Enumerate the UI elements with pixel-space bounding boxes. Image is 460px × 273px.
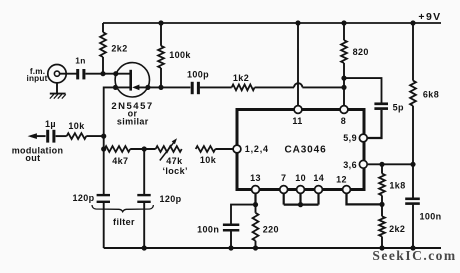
- node gate/2k2 junction: [100, 71, 105, 76]
- label f.m. input: [26, 67, 47, 83]
- wire 100p to 1k2: [200, 86, 232, 88]
- node pin10/bus junction: [298, 202, 303, 207]
- label pin 13: [250, 173, 261, 183]
- resistor R 100k (drain load): [158, 23, 164, 87]
- node pin13/100n/220 junction: [253, 202, 258, 207]
- pin 13 terminal: [252, 186, 260, 194]
- label pin 10: [295, 173, 306, 183]
- resistor R 10k (loop): [196, 146, 216, 152]
- resistor R 1k8: [379, 164, 385, 204]
- wire pin 12 to 1k8/2k2 junction: [347, 193, 383, 204]
- op-amp U1 CA3046 transistor array box: [237, 110, 364, 190]
- label 120p left value: [72, 193, 94, 203]
- wire 4k7 to 47k: [130, 148, 155, 150]
- svg-text:4k7: 4k7: [112, 156, 128, 166]
- node 1k2/820 junction: [341, 85, 346, 90]
- brace filter underbrace: [92, 205, 153, 212]
- svg-text:2k2: 2k2: [111, 44, 127, 54]
- pin 8 terminal: [340, 106, 348, 114]
- node source-line/4k7 junction: [101, 146, 106, 151]
- resistor R 6k8: [410, 23, 416, 164]
- label pin 8: [341, 116, 346, 126]
- node top-rail/100k junction: [158, 20, 163, 25]
- svg-text:12: 12: [336, 174, 347, 184]
- svg-text:5,9: 5,9: [343, 133, 357, 143]
- label SeekIC.com watermark: [372, 248, 456, 263]
- label 2k2 emitter value: [389, 224, 405, 234]
- pin 10 terminal: [297, 186, 305, 194]
- label 100k value: [169, 50, 191, 60]
- wire drain lead to 100k and 100p: [139, 86, 190, 88]
- label pin 1,2,4: [245, 144, 269, 154]
- node 3,6/6k8/100n junction: [410, 162, 415, 167]
- node 4k7/120p junction: [142, 146, 147, 151]
- resistor R 10k (output): [67, 133, 87, 139]
- svg-text:10: 10: [295, 173, 306, 183]
- label pin 12: [336, 174, 347, 184]
- svg-text:input: input: [26, 74, 47, 83]
- label pin 3,6: [343, 160, 357, 170]
- wire 120p right branch: [143, 149, 145, 248]
- svg-text:3,6: 3,6: [343, 160, 357, 170]
- wire pin 13 lead: [254, 193, 256, 204]
- resistor R 47k lock potentiometer: [156, 146, 182, 152]
- pin 3,6 terminal: [359, 160, 367, 168]
- transistor Q1 2N5457 envelope: [115, 63, 149, 97]
- svg-text:10k: 10k: [200, 155, 217, 165]
- svg-text:100p: 100p: [187, 70, 209, 80]
- node top-rail/6k8 junction: [410, 20, 415, 25]
- capacitor C 5p: [374, 104, 388, 109]
- svg-text:100k: 100k: [169, 50, 191, 60]
- svg-text:100n: 100n: [197, 224, 219, 234]
- wire +9V top supply rail: [103, 22, 441, 24]
- label 47k value: [166, 156, 183, 166]
- label 100n right value: [419, 212, 441, 222]
- label 4k7 value: [112, 156, 128, 166]
- svg-text:filter: filter: [113, 217, 135, 227]
- label 120p right value: [159, 194, 181, 204]
- capacitor C 100n left: [223, 225, 239, 231]
- label 2N5457 or similar: [111, 101, 153, 126]
- pin 14 terminal: [315, 186, 323, 194]
- wire pins 7,10,14 common bus: [284, 193, 319, 204]
- svg-text:+9V: +9V: [418, 11, 441, 23]
- svg-text:1k8: 1k8: [389, 180, 405, 190]
- svg-text:100n: 100n: [419, 212, 441, 222]
- node top-rail/820 junction: [341, 20, 346, 25]
- label 1n value: [75, 56, 86, 66]
- wire junction to 100n left: [231, 205, 256, 224]
- label pin 5,9: [343, 133, 357, 143]
- wire 1n capacitor to gate: [86, 73, 131, 75]
- label 5p value: [393, 102, 404, 112]
- node 220/rail junction: [253, 245, 258, 250]
- svg-text:5p: 5p: [393, 102, 404, 112]
- svg-text:7: 7: [281, 173, 286, 183]
- svg-text:out: out: [25, 153, 40, 163]
- svg-text:‘lock’: ‘lock’: [162, 166, 187, 176]
- resistor R 4k7: [105, 146, 131, 152]
- resistor R 820: [341, 23, 347, 106]
- connector J1 f.m. input socket: [48, 65, 66, 83]
- node 820/5p junction: [341, 76, 346, 81]
- label 6k8 value: [423, 90, 439, 100]
- node 2k2/rail junction: [379, 245, 384, 250]
- svg-text:47k: 47k: [166, 156, 183, 166]
- svg-text:120p: 120p: [72, 193, 94, 203]
- label filter: [113, 217, 135, 227]
- label +9V: [418, 11, 441, 23]
- resistor R 2k2 (gate bias): [100, 23, 106, 74]
- svg-text:13: 13: [250, 173, 261, 183]
- node 120p-right/rail junction: [142, 245, 147, 250]
- wire ground bottom rail: [104, 247, 441, 249]
- svg-text:10k: 10k: [68, 121, 85, 131]
- pin 12 terminal: [343, 186, 351, 194]
- svg-text:1n: 1n: [75, 56, 86, 66]
- label pin 14: [313, 173, 324, 183]
- svg-text:CA3046: CA3046: [284, 145, 326, 156]
- svg-text:1µ: 1µ: [45, 119, 56, 129]
- svg-text:SeekIC.com: SeekIC.com: [372, 248, 456, 263]
- svg-text:120p: 120p: [159, 194, 181, 204]
- capacitor C 1µ: [48, 130, 54, 143]
- label 820 value: [353, 47, 369, 57]
- label 220 value: [263, 224, 279, 234]
- pin 1,2,4 terminal: [233, 145, 241, 153]
- pin 7 terminal: [280, 186, 288, 194]
- wire 10k to pin 1,2,4: [215, 148, 233, 150]
- svg-text:2k2: 2k2: [389, 224, 405, 234]
- capacitor C 100n right: [405, 199, 420, 204]
- node 3,6/1k8 junction: [379, 162, 384, 167]
- node 1k8/2k2 junction: [379, 202, 384, 207]
- pin 5,9 terminal: [359, 134, 367, 142]
- label 1µ value: [45, 119, 56, 129]
- arrow 47k wiper: [160, 138, 177, 160]
- label 2k2 value: [111, 44, 127, 54]
- wire 6k8 node to 100n right: [412, 164, 414, 198]
- node drain line crosses envelope: [145, 85, 150, 90]
- transistor Q1 channel bar: [129, 70, 132, 91]
- wire 1µ to 10k: [56, 135, 67, 137]
- label 1k8 value: [389, 180, 405, 190]
- label 100p value: [187, 70, 209, 80]
- pin 11 terminal: [294, 106, 302, 114]
- node gate line crosses envelope: [113, 71, 118, 76]
- wire 820 node to 5p top: [344, 78, 382, 103]
- node drain/100k junction: [158, 85, 163, 90]
- wire 100n right to ground rail: [412, 205, 414, 248]
- node source line crosses envelope: [113, 85, 118, 90]
- label CA3046: [284, 145, 326, 156]
- resistor R 2k2 (emitter): [379, 204, 385, 248]
- wire input socket to 1n capacitor: [60, 73, 77, 75]
- label 1k2 value: [233, 73, 249, 83]
- label 10k loop value: [200, 155, 217, 165]
- svg-text:220: 220: [263, 224, 279, 234]
- node 100n-left/rail junction: [228, 245, 233, 250]
- label pin 11: [292, 116, 302, 126]
- transistor Q1 arrow on drain lead: [132, 85, 139, 91]
- resistor R 220: [253, 205, 259, 248]
- wire 100n left to ground rail: [230, 231, 232, 248]
- arrow modulation output: [28, 133, 46, 139]
- node source-line/output junction: [101, 134, 106, 139]
- svg-text:similar: similar: [117, 116, 149, 126]
- node 100n-right/rail junction: [410, 245, 415, 250]
- svg-text:1,2,4: 1,2,4: [245, 144, 269, 154]
- wire 10k to source line: [86, 135, 103, 137]
- wire pin 3,6 to 6k8 node: [368, 163, 413, 165]
- capacitor C 120p right: [137, 195, 150, 202]
- svg-text:6k8: 6k8: [423, 90, 439, 100]
- node top-rail/pin-11 branch junction: [295, 20, 300, 25]
- wire 1k2 to pin 8 net with hop over pin-11 line: [255, 83, 344, 87]
- svg-text:11: 11: [292, 116, 302, 126]
- wire supply rail to pin 11: [297, 23, 299, 106]
- svg-text:820: 820: [353, 47, 369, 57]
- label lock: [162, 166, 187, 176]
- wire source lead down-left corner: [104, 87, 130, 248]
- label modulation out: [12, 146, 64, 164]
- label 10k output value: [68, 121, 85, 131]
- ground input ground symbol: [50, 83, 66, 99]
- label 100n left value: [197, 224, 219, 234]
- svg-text:8: 8: [341, 116, 346, 126]
- resistor R 1k2: [232, 85, 255, 91]
- capacitor C 100p: [192, 82, 198, 94]
- svg-text:14: 14: [313, 173, 324, 183]
- capacitor C 1n: [78, 69, 84, 79]
- capacitor C 120p left: [97, 195, 110, 202]
- label pin 7: [281, 173, 286, 183]
- wire 5p bottom to pin 5,9: [367, 110, 382, 138]
- svg-text:1k2: 1k2: [233, 73, 249, 83]
